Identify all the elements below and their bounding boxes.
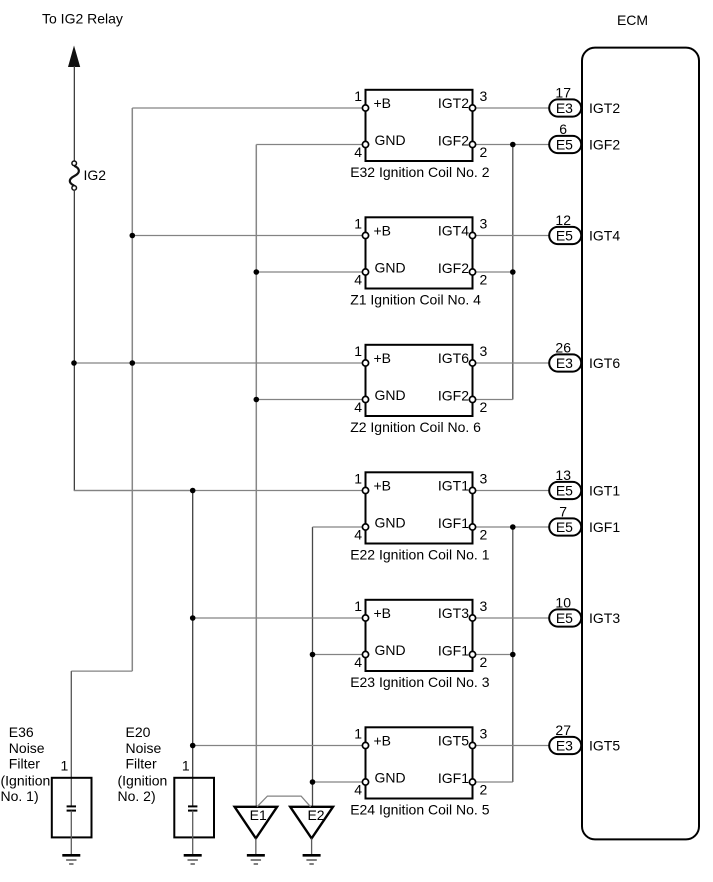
connector E5 pin 12 (IGT4) [549,212,581,244]
wire: +B bus A to E36 filter (horizontal) [71,670,132,672]
ground symbol under E2 [303,855,321,864]
svg-text:Z1 Ignition Coil No. 4: Z1 Ignition Coil No. 4 [350,292,481,308]
arrow to IG2 relay [68,46,80,68]
wire: IGT5 signal from coil E24 [476,745,550,747]
svg-text:IGF2: IGF2 [438,388,469,404]
ignition coil Z2 (Z2 Ignition Coil No. 6) [350,343,487,435]
svg-text:4: 4 [354,782,362,798]
junction: bus B / E24 +B [190,743,196,749]
svg-text:+B: +B [374,605,392,621]
svg-text:GND: GND [375,132,406,148]
svg-text:GND: GND [375,260,406,276]
wire: IGT3 signal from coil E23 [476,617,550,619]
svg-text:GND: GND [375,642,406,658]
svg-text:IGF1: IGF1 [438,643,469,659]
svg-text:2: 2 [480,526,488,542]
ground symbol under E1 [247,855,265,864]
wire: shield link between E1 and E2 [257,796,311,807]
ignition coil E23 (E23 Ignition Coil No. 3) [350,598,490,690]
svg-text:2: 2 [480,654,488,670]
ground symbol under E36 [62,855,80,864]
junction: E2 bus / E24 GND [310,779,316,785]
svg-text:E20: E20 [126,724,151,740]
ECM pin label IGT6 [589,355,620,371]
noise filter E36 [52,778,92,855]
junction: bus A / Z2 +B [130,360,136,366]
svg-text:10: 10 [555,595,571,611]
ground symbol under E20 [184,855,202,864]
label block E20 noise filter [118,724,168,804]
svg-text:4: 4 [354,399,362,415]
svg-text:E3: E3 [556,355,573,371]
wire: IGT6 signal from coil Z2 [476,362,550,364]
wire: +B bus B vertical to E20 filter [192,491,194,807]
wire: arrow shaft to IG2 connector [73,66,75,161]
svg-text:IGT6: IGT6 [589,355,620,371]
svg-text:4: 4 [354,527,362,543]
svg-text:IGT3: IGT3 [589,610,620,626]
connector E3 pin 26 (IGT6) [549,340,581,372]
wire: ground bus coils 2-4-6 to E1 [255,145,257,807]
wire: GND of coil Z2 to ground bus [256,399,362,401]
svg-text:IGT4: IGT4 [438,223,469,239]
svg-text:E3: E3 [556,738,573,754]
connector E5 pin 7 (IGF1) [549,504,581,536]
svg-text:3: 3 [480,726,488,742]
svg-text:Z2 Ignition Coil No. 6: Z2 Ignition Coil No. 6 [350,419,481,435]
svg-text:To IG2 Relay: To IG2 Relay [42,11,123,27]
svg-text:IGT5: IGT5 [438,733,469,749]
junction: bus A / Z1 +B [130,233,136,239]
ignition coil Z1 (Z1 Ignition Coil No. 4) [350,216,487,308]
wire: +B bus A vertical [131,108,133,671]
connector E5 pin 13 (IGT1) [549,467,581,499]
ground point triangle E1 [235,807,278,839]
svg-text:IG2: IG2 [84,167,107,183]
junction: IGF2 bus top [510,142,516,148]
svg-text:+B: +B [374,350,392,366]
svg-text:IGT5: IGT5 [589,738,620,754]
svg-text:+B: +B [374,95,392,111]
svg-text:1: 1 [354,343,362,359]
svg-text:2: 2 [480,144,488,160]
connector E5 pin 10 (IGT3) [549,595,581,627]
svg-text:E1: E1 [250,807,267,823]
svg-text:E24 Ignition Coil No. 5: E24 Ignition Coil No. 5 [350,802,490,818]
wire: GND of coil E22 to ground bus [313,526,363,528]
svg-text:+B: +B [374,478,392,494]
svg-text:GND: GND [375,770,406,786]
ignition coil E32 (E32 Ignition Coil No. 2) [350,88,490,180]
pin 1 label of E36 [61,758,69,774]
svg-text:IGF1: IGF1 [438,770,469,786]
ECM pin label IGT3 [589,610,620,626]
svg-text:IGF1: IGF1 [438,515,469,531]
wire: ground bus coils 1-3-5 to E2 [312,527,314,807]
svg-text:+B: +B [374,733,392,749]
svg-text:E5: E5 [556,137,573,153]
wire: E1 triangle to ground [255,838,257,854]
connector E3 pin 27 (IGT5) [549,722,581,754]
ground point triangle E2 [290,807,333,839]
svg-text:27: 27 [555,722,571,738]
svg-text:1: 1 [354,726,362,742]
svg-text:IGF2: IGF2 [438,260,469,276]
svg-text:3: 3 [480,598,488,614]
wire: +B feed to coil E32 [132,107,362,109]
svg-text:2: 2 [480,271,488,287]
wire: +B feed to coil E22 [74,490,362,492]
svg-text:IGT6: IGT6 [438,350,469,366]
svg-text:3: 3 [480,88,488,104]
svg-text:4: 4 [354,654,362,670]
svg-text:E5: E5 [556,519,573,535]
wire: E2 triangle to ground [311,838,313,854]
pin 1 label of E20 [182,758,190,774]
wire: IGF1 signal from coil E24 [476,781,513,783]
junction: IG2 feed / Z2 +B [71,360,77,366]
wire: IGF2 signal from coil E32 [476,144,550,146]
svg-text:+B: +B [374,223,392,239]
svg-text:Filter: Filter [126,756,157,772]
svg-text:2: 2 [480,399,488,415]
svg-text:E5: E5 [556,483,573,499]
svg-text:E2: E2 [307,807,324,823]
label block E36 noise filter [1,724,51,804]
ECM pin label IGT4 [589,228,620,244]
svg-text:3: 3 [480,216,488,232]
svg-text:IGT3: IGT3 [438,605,469,621]
svg-text:IGF1: IGF1 [589,519,620,535]
wire: feed down to E36 noise filter [70,671,72,806]
svg-text:1: 1 [61,758,69,774]
ECM pin label IGT5 [589,738,620,754]
wire: GND of coil E23 to ground bus [313,654,363,656]
svg-text:No. 1): No. 1) [1,788,39,804]
svg-text:3: 3 [480,343,488,359]
svg-text:17: 17 [555,85,571,101]
junction: IGF1 bus top [510,524,516,530]
wire: +B feed to coil Z1 [132,235,362,237]
svg-text:IGT4: IGT4 [589,228,620,244]
svg-text:IGF2: IGF2 [589,137,620,153]
wire: IGF1 bus coils 1-3-5 [512,527,514,782]
svg-text:1: 1 [354,216,362,232]
svg-text:26: 26 [555,340,571,356]
wire: IGT2 signal from coil E32 [476,107,550,109]
svg-text:(Ignition: (Ignition [118,772,168,788]
wire: IGF2 signal from coil Z2 [476,399,513,401]
junction: bus B / E23 +B [190,615,196,621]
junction: E2 bus / E23 GND [310,652,316,658]
svg-text:No. 2): No. 2) [118,788,156,804]
wire: GND of coil E32 to ground bus [256,144,362,146]
connector E3 pin 17 (IGT2) [549,85,581,117]
wire: IGF1 signal from coil E22 [476,526,550,528]
junction: bus B / E22 +B [190,488,196,494]
svg-text:1: 1 [354,598,362,614]
svg-text:IGT1: IGT1 [438,478,469,494]
svg-text:1: 1 [182,758,190,774]
svg-text:E36: E36 [9,724,34,740]
label: ECM [617,12,648,28]
svg-text:E23 Ignition Coil No. 3: E23 Ignition Coil No. 3 [350,674,490,690]
wire: IGF2 signal from coil Z1 [476,271,513,273]
svg-text:7: 7 [559,504,567,520]
svg-text:3: 3 [480,471,488,487]
ECM pin label IGF1 [589,519,620,535]
svg-text:E3: E3 [556,100,573,116]
wire: IG2 feed down [73,190,75,490]
junction: IGF1 bus / E23 IGF1 [510,652,516,658]
svg-text:E5: E5 [556,228,573,244]
svg-text:ECM: ECM [617,12,648,28]
svg-text:6: 6 [559,121,567,137]
svg-text:E5: E5 [556,610,573,626]
svg-text:IGT2: IGT2 [438,95,469,111]
wire: IGF2 bus coils 2-4-6 [512,145,514,400]
wire: corner IG2 feed to coil1 +B row [74,490,193,492]
svg-text:4: 4 [354,144,362,160]
svg-text:2: 2 [480,781,488,797]
svg-text:E22 Ignition Coil No. 1: E22 Ignition Coil No. 1 [350,547,490,563]
ignition coil E24 (E24 Ignition Coil No. 5) [350,726,490,818]
connector IG2 [70,161,79,190]
svg-text:1: 1 [354,471,362,487]
svg-text:Noise: Noise [9,740,45,756]
ECM pin label IGT1 [589,483,620,499]
connector E5 pin 6 (IGF2) [549,121,581,153]
svg-text:E32 Ignition Coil No. 2: E32 Ignition Coil No. 2 [350,164,490,180]
svg-text:IGT2: IGT2 [589,100,620,116]
ECM pin label IGT2 [589,100,620,116]
wire: GND of coil E24 to ground bus [313,781,363,783]
svg-text:1: 1 [354,88,362,104]
svg-text:IGF2: IGF2 [438,133,469,149]
svg-text:GND: GND [375,515,406,531]
svg-text:Filter: Filter [9,756,40,772]
wire: IGF1 signal from coil E23 [476,654,513,656]
ECM pin label IGF2 [589,137,620,153]
ignition coil E22 (E22 Ignition Coil No. 1) [350,471,490,563]
wire: IGT1 signal from coil E22 [476,490,550,492]
svg-text:13: 13 [555,467,571,483]
junction: E1 bus / Z2 GND [253,397,259,403]
svg-text:12: 12 [555,212,571,228]
wire: +B feed to coil E23 [193,617,363,619]
noise filter E20 [174,778,214,855]
wire: +B feed to coil E24 [193,745,363,747]
svg-text:GND: GND [375,387,406,403]
svg-text:Noise: Noise [126,740,162,756]
junction: E1 bus / Z1 GND [253,269,259,275]
wire: GND of coil Z1 to ground bus [256,271,362,273]
ECM housing [582,48,699,840]
junction: IGF2 bus / Z1 IGF2 [510,269,516,275]
wire: +B feed to coil Z2 [74,362,362,364]
svg-text:(Ignition: (Ignition [1,772,51,788]
svg-text:4: 4 [354,272,362,288]
label IG2 [84,167,107,183]
wire: IGT4 signal from coil Z1 [476,235,550,237]
label: To IG2 Relay [42,11,123,27]
svg-text:IGT1: IGT1 [589,483,620,499]
